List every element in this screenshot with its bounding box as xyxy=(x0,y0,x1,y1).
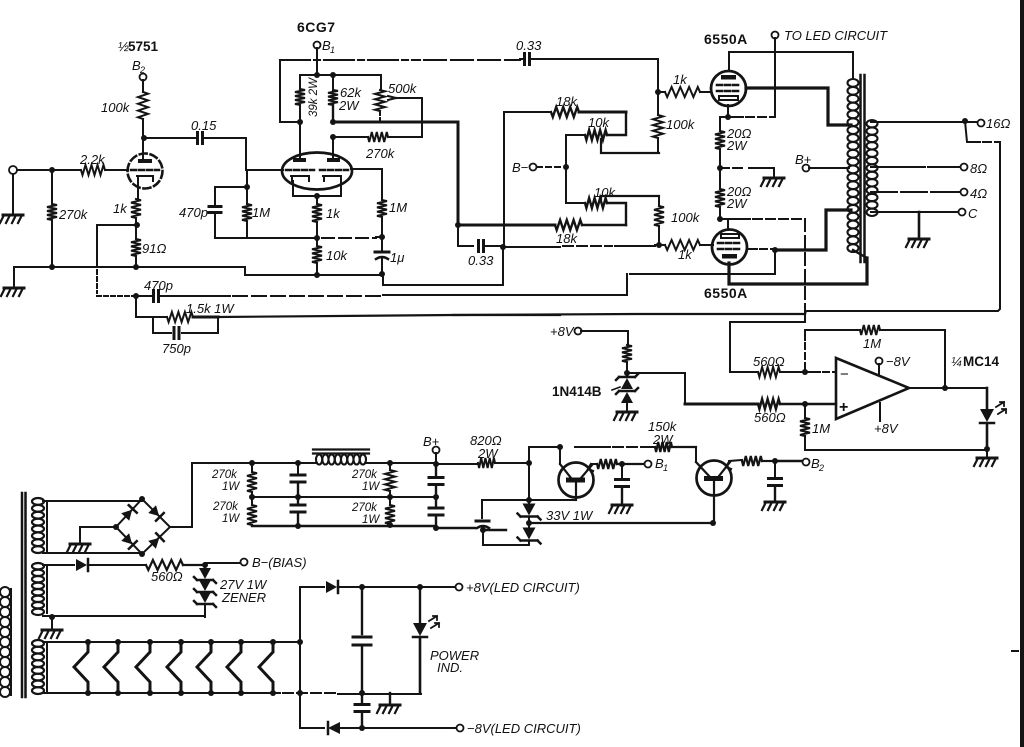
terminal +8V (clamp) xyxy=(575,328,582,335)
svg-text:91Ω: 91Ω xyxy=(142,241,166,256)
wire NFB dashes xyxy=(453,314,560,316)
svg-text:560Ω: 560Ω xyxy=(754,410,786,425)
svg-text:560Ω: 560Ω xyxy=(753,354,785,369)
svg-text:¼: ¼ xyxy=(951,354,962,369)
node 62k top xyxy=(330,72,336,78)
PT secondary HV xyxy=(32,498,44,553)
capacitor filter B-top xyxy=(435,464,437,476)
wire HV top to bridge xyxy=(141,499,143,501)
wire global NFB line xyxy=(218,314,805,317)
svg-text:1M: 1M xyxy=(252,205,270,220)
node 0.33B right xyxy=(500,244,506,250)
resistor 270k (input) xyxy=(47,204,57,220)
node 18k lower tap xyxy=(455,222,461,228)
svg-text:+: + xyxy=(839,399,848,416)
svg-text:18k: 18k xyxy=(556,94,578,109)
svg-text:B−: B− xyxy=(512,160,529,175)
svg-text:10k: 10k xyxy=(326,248,348,263)
resistor 1M (right grid) xyxy=(377,200,387,217)
PT secondary heater xyxy=(32,640,44,694)
terminal C xyxy=(959,209,966,216)
svg-text:1μ: 1μ xyxy=(390,250,404,265)
resistor 100k (5751 plate) xyxy=(138,92,148,119)
svg-text:−: − xyxy=(840,366,849,383)
capacitor (+8V filter) xyxy=(361,587,363,634)
node bias gnd xyxy=(49,614,55,620)
wire +8V to resistor xyxy=(581,331,628,345)
wire fb loop left xyxy=(804,330,806,340)
wire Q2 base xyxy=(695,447,697,462)
svg-text:5751: 5751 xyxy=(128,39,159,54)
wire zener rail to Q2 xyxy=(529,522,713,524)
wire 6CG7 plate leads xyxy=(300,122,333,158)
svg-text:+8V: +8V xyxy=(550,324,575,339)
wire B- vertical xyxy=(566,135,585,203)
wire 5751 cathode to 1k xyxy=(137,181,139,199)
svg-text:2W: 2W xyxy=(652,432,674,447)
ground (C tap) xyxy=(918,212,921,237)
node Q2 collector/zener xyxy=(710,520,716,526)
bottom supply bus xyxy=(252,526,506,530)
resistor 1k (lower grid) xyxy=(655,244,665,246)
wire to B- BIAS terminal xyxy=(205,562,240,564)
resistor (clamp series) xyxy=(622,345,632,362)
ground (bias) xyxy=(51,617,53,628)
svg-text:0.33: 0.33 xyxy=(468,253,494,268)
resistor 10k (6CG7 cathode) xyxy=(312,246,322,263)
wire 16ohm NFB xyxy=(965,121,980,142)
terminal B+ (OPT) xyxy=(803,165,810,172)
svg-text:1k: 1k xyxy=(326,206,341,221)
wire bus y275 to jog xyxy=(383,247,503,285)
zener 33V (1) xyxy=(523,504,536,516)
wire plate supply bus y75 xyxy=(300,74,381,76)
svg-text:1M: 1M xyxy=(863,336,881,351)
svg-text:2: 2 xyxy=(139,65,145,75)
capacitor 1u (polarized) xyxy=(381,237,383,251)
svg-text:100k: 100k xyxy=(666,117,696,132)
wire cathode fb tap xyxy=(97,225,137,267)
svg-text:2.2k: 2.2k xyxy=(79,152,106,167)
diode (-8V rect) xyxy=(300,727,324,729)
resistor 62k 2W xyxy=(332,75,334,90)
op-amp U1 1/4 MC14 xyxy=(836,358,909,419)
terminal B+ (supply) xyxy=(433,447,440,454)
bridge diode 3 xyxy=(121,533,137,549)
terminal 16ohm xyxy=(978,120,985,127)
resistor 560ohm (non-inv) xyxy=(758,399,780,409)
wire left plate to bus-0.33A xyxy=(280,60,300,122)
terminal B1 (bias) xyxy=(645,461,652,468)
node grid/100k (lower) xyxy=(656,242,662,248)
wire lower screen xyxy=(747,248,757,250)
wire 6CG7 right grid xyxy=(351,169,382,200)
wire plate to 0.15 cap xyxy=(144,137,195,139)
svg-text:4Ω: 4Ω xyxy=(970,186,987,201)
node 1M/1u xyxy=(379,234,385,240)
tube V4 6550A (lower) xyxy=(712,230,747,265)
ground (input) xyxy=(12,174,14,213)
svg-text:B−(BIAS): B−(BIAS) xyxy=(252,555,307,570)
svg-text:6550A: 6550A xyxy=(704,285,748,301)
wire clamp to +input xyxy=(627,373,685,404)
svg-text:2W: 2W xyxy=(726,138,748,153)
node B2 junction xyxy=(772,458,778,464)
terminal -8V LED xyxy=(457,725,464,732)
node grid/100k (upper) xyxy=(655,89,661,95)
input jack J1 xyxy=(9,166,17,174)
bridge diode 4 xyxy=(148,533,164,549)
wire 16ohm tap xyxy=(871,121,962,123)
bridge diamond xyxy=(116,499,170,554)
wire C tap xyxy=(871,211,959,213)
wire bridge minus xyxy=(80,527,116,542)
wire fb loop right xyxy=(944,330,946,388)
diode (+8V rect) xyxy=(300,586,324,588)
node 1k/10k junction xyxy=(314,235,320,241)
svg-text:10k: 10k xyxy=(594,185,616,200)
node supply 529 xyxy=(526,460,532,466)
resistor 560ohm (inverting) xyxy=(758,367,780,377)
wire bias sense to 560 xyxy=(730,314,805,372)
node plate/0.15 xyxy=(141,135,147,141)
resistor 18k (lower) xyxy=(458,224,555,227)
node feedback junction xyxy=(133,293,139,299)
wire lower cathode up xyxy=(727,219,729,230)
node rail 390 xyxy=(387,460,393,466)
transistor Q1 xyxy=(559,463,594,498)
svg-text:1k: 1k xyxy=(113,201,128,216)
node 1u bottom xyxy=(379,271,385,277)
terminal B- BIAS xyxy=(241,559,248,566)
wire B2 to 100k xyxy=(142,80,144,92)
power transformer core xyxy=(22,493,26,697)
resistor 150k 2W xyxy=(655,442,672,452)
svg-text:1k: 1k xyxy=(673,72,688,87)
wire Q1 base drop xyxy=(559,447,561,464)
svg-text:270k: 270k xyxy=(211,469,238,481)
svg-text:750p: 750p xyxy=(162,341,191,356)
capacitor (zener bypass) xyxy=(482,500,529,518)
wire bus y238 to 382 xyxy=(376,236,382,238)
node clamp junction xyxy=(624,370,630,376)
node input/270k xyxy=(49,167,55,173)
scan edge right xyxy=(1020,0,1024,747)
svg-text:1M: 1M xyxy=(389,200,407,215)
svg-text:39k 2W: 39k 2W xyxy=(308,77,320,117)
capacitor 750p (parallel loop) xyxy=(153,317,218,333)
node 20ohm mid xyxy=(717,165,723,171)
resistor 1M (left) xyxy=(242,204,252,221)
transistor Q2 xyxy=(697,461,732,496)
node 10k bottom xyxy=(314,272,320,278)
wire upper screen thick xyxy=(746,88,851,125)
label +8V pin xyxy=(879,403,881,421)
resistor 100k (lower) xyxy=(658,196,660,206)
wire LED box left xyxy=(299,587,301,728)
node bridge minus xyxy=(113,524,119,530)
terminal -8V pin xyxy=(876,358,883,365)
resistor 1k (6CG7 cathode) xyxy=(312,204,322,222)
node rail 436 xyxy=(433,461,439,467)
svg-text:2W: 2W xyxy=(726,196,748,211)
svg-text:IND.: IND. xyxy=(437,660,463,675)
svg-text:1: 1 xyxy=(663,463,668,473)
resistor 270k 1W (B1) xyxy=(385,470,395,491)
svg-text:MC14: MC14 xyxy=(963,354,1000,369)
terminal B-minus xyxy=(530,164,537,171)
tube V3 6550A (upper) xyxy=(711,71,746,106)
svg-text:33V 1W: 33V 1W xyxy=(546,508,594,523)
capacitor filter A-bot xyxy=(297,497,299,504)
wire 6CG7 cathodes join xyxy=(293,181,341,204)
resistor 1M (to gnd) xyxy=(800,418,810,436)
svg-text:270k: 270k xyxy=(365,146,396,161)
ground (clamp) xyxy=(617,411,637,414)
pot 10k upper wiper xyxy=(601,139,659,153)
resistor 1k (5751 cathode) xyxy=(131,199,141,218)
svg-text:270k: 270k xyxy=(212,501,239,513)
svg-text:470p: 470p xyxy=(144,278,173,293)
wire to B2 terminal xyxy=(775,460,802,462)
resistor 560ohm (bias) xyxy=(146,560,183,570)
potentiometer 10k (upper) xyxy=(585,130,607,140)
capacitor 0.15 C1 xyxy=(198,133,203,144)
capacitor (-8V filter) xyxy=(361,693,363,702)
wire mid bus y497 xyxy=(252,496,436,498)
capacitor 0.33 (bottom) C-B xyxy=(458,225,473,246)
node mid 390 xyxy=(387,494,393,500)
wire LED circuit vertical xyxy=(774,38,776,117)
terminal B2 (top) xyxy=(140,74,147,81)
wire op-amp output xyxy=(909,387,987,389)
wire +input row thick xyxy=(685,403,758,406)
wire to lower 6550A grid row xyxy=(503,246,560,248)
resistor 18k (upper) xyxy=(504,111,551,113)
wire inv input dash xyxy=(807,371,820,373)
PT primary winding xyxy=(0,587,10,697)
svg-text:0.33: 0.33 xyxy=(516,38,542,53)
svg-text:560Ω: 560Ω xyxy=(151,569,183,584)
svg-text:1.5k 1W: 1.5k 1W xyxy=(186,301,235,316)
node B- junction xyxy=(563,164,569,170)
ground (LED mid) xyxy=(389,693,391,703)
wire screen fb tap xyxy=(565,250,775,295)
node mid 298 xyxy=(295,494,301,500)
svg-text:−8V(LED CIRCUIT): −8V(LED CIRCUIT) xyxy=(467,721,581,736)
wire 8ohm tap xyxy=(871,166,925,168)
tube V1 1/2 5751 xyxy=(128,154,163,189)
pot 10k lower wiper xyxy=(601,196,659,199)
resistor 270k 1W (B2) xyxy=(385,505,395,524)
node +8V cap xyxy=(359,584,365,590)
wire cathode bus y238 xyxy=(215,237,317,239)
svg-text:−8V: −8V xyxy=(886,354,911,369)
resistor 270k (6CG7 fb) xyxy=(333,136,368,138)
node cathode junction xyxy=(134,222,140,228)
ground bus (left) xyxy=(14,267,383,275)
wire 100k to plate xyxy=(142,119,144,160)
wire B+ rail y463 xyxy=(192,463,529,464)
svg-text:100k: 100k xyxy=(671,210,701,225)
svg-text:2: 2 xyxy=(818,463,824,473)
heater bus top xyxy=(290,641,300,643)
svg-text:1W: 1W xyxy=(362,514,380,526)
svg-text:+8V: +8V xyxy=(874,421,899,436)
node inv input xyxy=(802,369,808,375)
choke L1 xyxy=(313,450,369,454)
resistor 39k 2W xyxy=(299,75,301,89)
resistor 820ohm 2W xyxy=(478,458,495,468)
capacitor 470p (feedback) xyxy=(154,291,159,302)
node 270k/bus xyxy=(49,264,55,270)
node LED bottom xyxy=(984,446,990,452)
capacitor (B1 filter) xyxy=(621,464,623,478)
node upper cathode xyxy=(725,114,731,120)
svg-text:1W: 1W xyxy=(222,481,240,493)
bridge diode 2 xyxy=(148,505,164,521)
node B1 bus xyxy=(314,72,320,78)
wire B1 down xyxy=(316,48,318,75)
wire fb to 1.5k row xyxy=(136,296,167,317)
ground (LED) xyxy=(986,449,988,456)
node zener mid xyxy=(526,520,532,526)
terminal +8V LED xyxy=(456,584,463,591)
resistor 270k 1W (A1) xyxy=(247,472,257,492)
svg-text:1k: 1k xyxy=(678,247,693,262)
svg-text:8Ω: 8Ω xyxy=(970,161,987,176)
svg-text:+8V(LED CIRCUIT): +8V(LED CIRCUIT) xyxy=(466,580,580,595)
wire bridge plus up xyxy=(170,463,192,527)
svg-text:270k: 270k xyxy=(351,502,378,514)
heater bus bottom xyxy=(270,692,280,694)
wire 18k upper right jog xyxy=(607,112,626,135)
svg-text:TO LED CIRCUIT: TO LED CIRCUIT xyxy=(784,28,888,43)
capacitor filter B-bot xyxy=(435,497,437,507)
resistor 270k 1W (A2) xyxy=(247,505,257,525)
svg-text:0.15: 0.15 xyxy=(191,118,217,133)
wire to center ground xyxy=(720,167,746,169)
wire 6CG7 left grid xyxy=(246,138,283,170)
svg-text:18k: 18k xyxy=(556,231,578,246)
svg-text:1M: 1M xyxy=(812,421,830,436)
capacitor 0.33 (top) C-A xyxy=(525,54,530,65)
resistor 1M (op-amp fb) xyxy=(805,329,860,331)
node bias zener top xyxy=(202,562,208,568)
node LED anode xyxy=(417,584,423,590)
svg-text:ZENER: ZENER xyxy=(221,590,266,605)
resistor 2.2k R2 xyxy=(81,165,105,175)
svg-text:10k: 10k xyxy=(588,115,610,130)
wire Q1 collector to zener xyxy=(529,499,576,501)
node lower screen xyxy=(772,247,778,253)
LED POWER IND xyxy=(419,587,421,622)
terminal B1 xyxy=(314,42,321,49)
tube V2 6CG7 (dual triode) xyxy=(282,153,352,190)
wire screen thick to OPT xyxy=(775,210,851,250)
node 0.15/grid bus xyxy=(244,184,250,190)
svg-text:2W: 2W xyxy=(477,446,499,461)
capacitor 470p (grid) xyxy=(215,187,247,206)
svg-text:6550A: 6550A xyxy=(704,31,748,47)
resistor 20ohm 2W (upper) xyxy=(719,117,721,131)
wire zener bottom xyxy=(483,531,529,545)
node bridge plus xyxy=(139,496,145,502)
svg-text:B+: B+ xyxy=(795,152,812,167)
svg-text:270k: 270k xyxy=(58,207,89,222)
ground (B2) xyxy=(765,501,785,504)
bridge diode 1 xyxy=(121,505,137,521)
svg-text:16Ω: 16Ω xyxy=(986,116,1010,131)
svg-text:270k: 270k xyxy=(351,469,378,481)
terminal 8ohm xyxy=(961,164,968,171)
PT secondary bias xyxy=(32,563,44,615)
resistor (Q1 emitter) xyxy=(597,459,617,469)
node mid 436 xyxy=(433,494,439,500)
node +8V cap bottom xyxy=(359,690,365,696)
terminal 4ohm xyxy=(961,189,968,196)
zener 33V (2) xyxy=(523,528,536,540)
svg-text:2W: 2W xyxy=(338,98,360,113)
svg-text:1N414B: 1N414B xyxy=(552,384,602,399)
terminal TO LED CIRCUIT xyxy=(772,32,779,39)
node 62k plate xyxy=(330,119,336,125)
svg-text:B+: B+ xyxy=(423,434,440,449)
node non-inv input xyxy=(802,401,808,407)
pot 500k wiper xyxy=(388,96,422,137)
wire 4ohm tap xyxy=(871,191,940,193)
wire 529 riser xyxy=(528,447,530,500)
node 39k plate xyxy=(297,119,303,125)
svg-text:1: 1 xyxy=(330,45,335,55)
resistor 1k (upper grid) xyxy=(658,91,665,93)
svg-text:1W: 1W xyxy=(362,481,380,493)
resistor 1.5k 1W xyxy=(167,312,193,322)
wire bias sense dash xyxy=(720,218,750,220)
ground (bus left end) xyxy=(13,267,15,286)
ground (bridge) xyxy=(70,543,90,546)
wire 247 vertical xyxy=(246,170,248,204)
heater filaments (7 tubes) xyxy=(74,642,88,693)
terminal B2 (bias) xyxy=(803,459,810,466)
zener 27V stack xyxy=(199,568,211,579)
svg-text:C: C xyxy=(968,206,978,221)
wire B- to network xyxy=(537,166,563,168)
node B1 junction xyxy=(619,461,625,467)
LED (bias indicator) xyxy=(986,388,989,409)
potentiometer 10k (lower) xyxy=(585,198,607,208)
svg-text:500k: 500k xyxy=(388,81,418,96)
OPT secondary winding xyxy=(867,120,878,216)
ground (OPT center) xyxy=(773,168,775,176)
node rail 298 xyxy=(295,460,301,466)
potentiometer 500k xyxy=(380,75,382,90)
wire 1M-gnd bottom row xyxy=(805,449,987,451)
diode (bias rect) xyxy=(43,564,74,566)
svg-text:1W: 1W xyxy=(222,513,240,525)
resistor 91ohm xyxy=(131,239,141,256)
wire upper cathode xyxy=(727,105,729,117)
ground (B1) xyxy=(612,504,632,507)
wire Q1 emitter row xyxy=(592,463,597,465)
wire bias return xyxy=(204,613,206,617)
wire Q2 emitter row xyxy=(729,460,742,461)
wire bias servo rail y447 xyxy=(529,446,610,448)
wire B+ to OPT xyxy=(809,167,849,169)
wire upper plate to OPT xyxy=(729,52,853,79)
capacitor filter A-top xyxy=(297,463,299,475)
node 62k/270k xyxy=(330,134,336,140)
